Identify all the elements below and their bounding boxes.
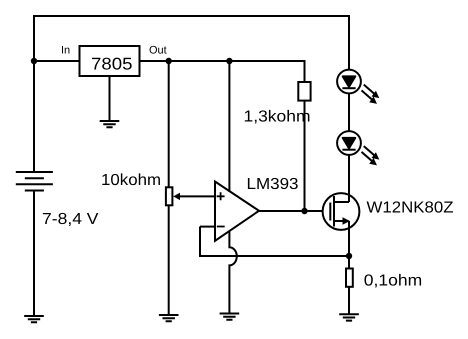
- wire 7805 ground stub: [109, 76, 111, 121]
- svg-text:LM393: LM393: [247, 176, 299, 193]
- transistor drain tap: [334, 201, 349, 203]
- wire source node to R3: [348, 256, 350, 269]
- label 10kohm: [101, 172, 161, 189]
- wire battery positive up left side: [33, 16, 35, 172]
- LED D1 light arrow lower: [362, 90, 378, 104]
- op-amp U2 LM393 triangle: [215, 182, 259, 241]
- LED D1 cathode bar: [342, 87, 355, 89]
- LED D2 circle: [337, 131, 361, 155]
- node Out junction at potentiometer column: [166, 58, 172, 64]
- LED D2 triangle: [343, 138, 356, 149]
- transistor channel bar: [333, 196, 335, 227]
- wire LED1 to LED2: [348, 93, 350, 131]
- potentiometer R2 10kohm body: [166, 187, 173, 205]
- wire LED2 to drain: [348, 155, 350, 203]
- ground below R3: [339, 314, 359, 320]
- svg-text:1,3kohm: 1,3kohm: [244, 109, 311, 126]
- label 7-8,4 V: [42, 211, 99, 228]
- wire top rail drop to LED1: [348, 15, 350, 70]
- node Out junction at op-amp supply column: [226, 58, 232, 64]
- svg-text:W12NK80Z: W12NK80Z: [367, 199, 454, 216]
- svg-text:10kohm: 10kohm: [101, 172, 161, 189]
- ground below battery: [24, 316, 44, 322]
- pin label In: [61, 45, 70, 57]
- op-amp minus input symbol: [217, 226, 225, 228]
- wire Out to potentiometer: [168, 61, 170, 188]
- svg-text:In: In: [61, 45, 70, 57]
- wire op-amp V+ supply: [228, 61, 230, 192]
- ground below op-amp: [220, 314, 240, 320]
- wire source down to node: [348, 221, 350, 256]
- resistor R3 0,1ohm body: [346, 269, 353, 287]
- label 7805: [91, 55, 133, 74]
- svg-text:7805: 7805: [91, 55, 133, 74]
- LED D2 light arrow lower: [362, 152, 378, 166]
- ground below potentiometer: [159, 315, 179, 321]
- LED D2 cathode bar: [342, 149, 355, 151]
- LED D1 triangle: [343, 76, 356, 87]
- label 1,3kohm: [244, 109, 311, 126]
- label W12NK80Z: [367, 199, 454, 216]
- LED D1 light arrow upper: [364, 85, 380, 99]
- wire minus input feedback left: [200, 226, 216, 228]
- node source junction: [346, 253, 352, 259]
- pin label Out: [149, 45, 167, 57]
- node output junction with R1: [301, 208, 307, 214]
- wire feedback to source node: [199, 255, 349, 257]
- wire In to 7805: [34, 60, 79, 62]
- voltage regulator U1 7805: [80, 46, 140, 76]
- wire feedback down: [199, 227, 201, 257]
- transistor Q1 W12NK80Z body circle: [323, 193, 360, 230]
- wire Out rail corner down to resistor R1: [304, 60, 306, 82]
- op-amp plus input symbol: [217, 192, 225, 200]
- transistor gate bar: [329, 203, 331, 221]
- wire potentiometer bottom to ground: [168, 205, 170, 315]
- wire top rail: [33, 15, 349, 17]
- potentiometer wiper arrow: [173, 193, 215, 200]
- transistor source tap with arrow: [334, 217, 350, 225]
- wire R1 bottom to op-amp output node: [304, 101, 306, 211]
- label LM393: [247, 176, 299, 193]
- svg-text:0,1ohm: 0,1ohm: [364, 273, 423, 290]
- svg-text:7-8,4 V: 7-8,4 V: [42, 211, 99, 228]
- wire op-amp output to gate: [258, 210, 330, 212]
- resistor R1 1,3kohm body: [298, 82, 310, 101]
- LED D2 light arrow upper: [364, 146, 380, 160]
- wire op-amp V- to ground with hop over feedback: [229, 231, 236, 314]
- wire battery negative to ground: [33, 191, 35, 317]
- LED D1 circle: [337, 70, 361, 94]
- wire R3 to ground: [348, 287, 350, 315]
- svg-text:Out: Out: [149, 45, 167, 57]
- label 0,1ohm: [364, 273, 423, 290]
- ground below 7805: [100, 121, 120, 127]
- battery BT1 plates: [16, 172, 53, 191]
- node In junction: [31, 58, 37, 64]
- wire Out rail: [140, 60, 305, 62]
